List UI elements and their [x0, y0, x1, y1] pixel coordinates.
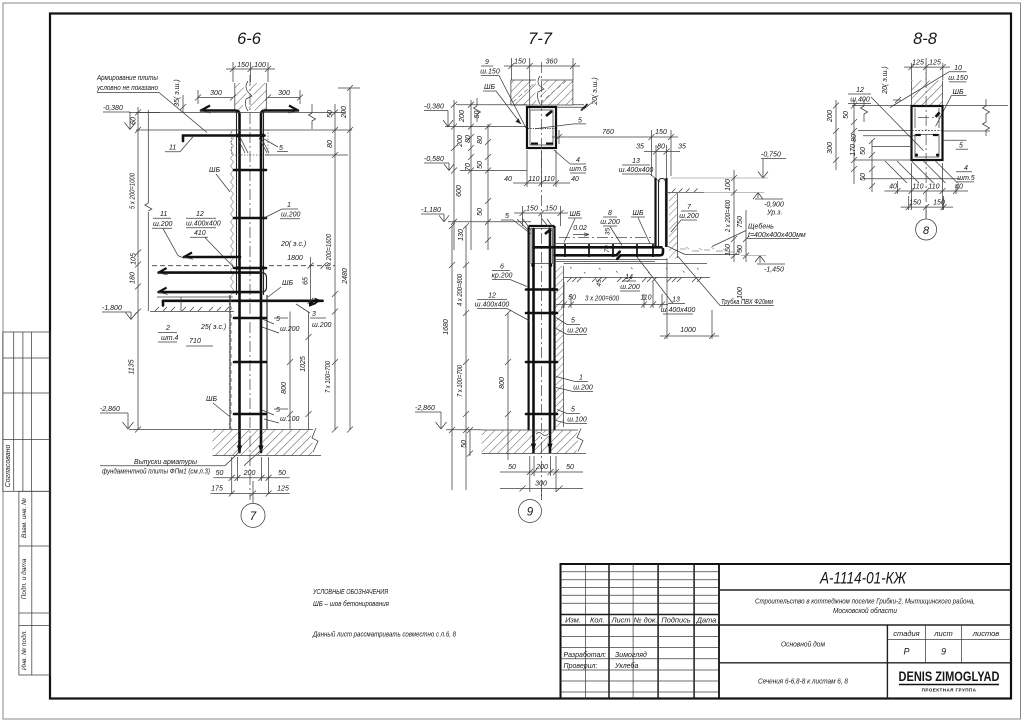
svg-text:-0,380: -0,380: [103, 105, 123, 112]
svg-text:ш.400х400: ш.400х400: [619, 167, 654, 174]
svg-text:40: 40: [504, 176, 512, 183]
centerline cross: [918, 117, 934, 119]
svg-text:2 х 200=400: 2 х 200=400: [725, 200, 732, 233]
svg-text:45: 45: [596, 279, 603, 287]
svg-text:1025: 1025: [300, 356, 307, 372]
svg-text:35: 35: [636, 144, 644, 151]
wall outline below slab: [236, 111, 238, 296]
slab bottom bar with bend: [555, 249, 664, 259]
svg-text:Подп. и дата: Подп. и дата: [20, 558, 28, 599]
corner hatch marks: [517, 218, 555, 231]
svg-text:t=400х400х400мм: t=400х400х400мм: [748, 232, 806, 239]
svg-text:150: 150: [237, 62, 249, 69]
svg-text:ш.200: ш.200: [573, 385, 593, 392]
leader to outlets: [100, 449, 262, 466]
svg-text:ш.400х400: ш.400х400: [475, 302, 510, 309]
svg-text:150: 150: [514, 59, 526, 66]
svg-text:ш.400х400: ш.400х400: [661, 307, 696, 314]
svg-text:130: 130: [458, 229, 465, 241]
left dim chains lower 7-7: [449, 223, 511, 490]
svg-text:Разработал:: Разработал:: [564, 651, 607, 659]
svg-text:Подпись: Подпись: [661, 616, 690, 625]
slab hatched cut top: [511, 80, 573, 105]
fletch arrow right: [289, 106, 298, 111]
svg-text:Ур.з.: Ур.з.: [766, 210, 782, 217]
svg-text:8-8: 8-8: [913, 30, 938, 48]
dim 50 foundation depth: [467, 427, 473, 457]
wall stirrups lower: [526, 288, 557, 291]
svg-text:12: 12: [196, 211, 204, 218]
svg-text:300: 300: [278, 90, 290, 97]
foundation right break zigzag: [312, 428, 318, 452]
dotted joint zone rect: [232, 130, 269, 155]
dim 300 left of wall: [195, 90, 236, 104]
svg-text:фундаментной плиты ФПм1 (см.л.: фундаментной плиты ФПм1 (см.л.3): [102, 468, 210, 476]
bold anchor diagonal (8-8): [936, 112, 940, 117]
beam 8-8 outline: [912, 106, 943, 160]
svg-text:стадия: стадия: [893, 629, 919, 638]
svg-text:5: 5: [571, 407, 575, 414]
centerline vertical 8-8: [925, 58, 927, 218]
bottom dim chain 50 200 50: [213, 457, 289, 494]
svg-text:35: 35: [678, 144, 686, 151]
svg-text:200: 200: [341, 106, 348, 119]
header texts Izm Kol List Ndok Podpis Data: [565, 616, 716, 625]
break zigzag on floor line: [474, 98, 481, 122]
svg-text:12: 12: [488, 293, 496, 300]
svg-text:360: 360: [546, 59, 558, 66]
svg-text:8 х 200=1600: 8 х 200=1600: [326, 234, 333, 270]
svg-text:3 х 200=600: 3 х 200=600: [585, 296, 619, 303]
wall 7-7 outline: [527, 226, 529, 430]
svg-text:0.02: 0.02: [573, 225, 587, 232]
lean concrete strip under slab: [564, 262, 708, 264]
bar hook right rounded: [259, 273, 267, 293]
wavy break in wall at foundation: [536, 433, 548, 436]
svg-text:Выпуски арматуры: Выпуски арматуры: [134, 459, 198, 466]
svg-text:25( э.с.): 25( э.с.): [200, 324, 226, 331]
svg-text:Согласовано: Согласовано: [5, 445, 12, 488]
node circle 9: [519, 500, 542, 523]
floor lines left and right: [852, 105, 912, 107]
svg-text:12: 12: [856, 87, 864, 94]
svg-text:ш.400х400: ш.400х400: [186, 221, 221, 228]
svg-text:кр.200: кр.200: [492, 273, 513, 280]
svg-text:5: 5: [959, 143, 963, 150]
svg-text:Основной дом: Основной дом: [781, 640, 826, 649]
svg-text:20( э.ш.): 20( э.ш.): [592, 77, 599, 106]
svg-text:2: 2: [165, 325, 170, 332]
svg-text:ШБ: ШБ: [206, 396, 217, 403]
svg-text:50: 50: [860, 147, 867, 155]
joint hatch in wall: [238, 137, 269, 153]
dotted joint line in beam: [528, 128, 555, 130]
right dim chain 2: [338, 85, 360, 433]
slab top bar: [534, 246, 662, 249]
dotted joint line: [912, 130, 942, 132]
svg-text:50: 50: [508, 464, 516, 471]
svg-text:ШБ: ШБ: [953, 89, 964, 96]
inner stirrup lower: [915, 135, 939, 158]
rebar outlet arrows to foundation bottom: [237, 446, 264, 454]
top bar 11 with hooks and section dots: [183, 134, 265, 137]
ground line left: [150, 311, 234, 313]
svg-text:110: 110: [528, 176, 539, 183]
svg-text:ШБ: ШБ: [633, 210, 644, 217]
svg-text:6-6: 6-6: [237, 30, 262, 48]
svg-text:5: 5: [279, 145, 283, 152]
svg-text:1680: 1680: [443, 319, 450, 335]
svg-text:11: 11: [169, 145, 176, 152]
svg-text:180: 180: [130, 272, 137, 284]
bottom dim chain 175 125: [211, 481, 290, 503]
svg-text:125: 125: [277, 486, 289, 493]
bent rebar left (slab-to-wall): [201, 111, 240, 453]
svg-text:80: 80: [465, 135, 472, 143]
slab stirrups: [565, 244, 653, 257]
svg-text:Армирование плиты: Армирование плиты: [96, 75, 159, 82]
svg-text:40: 40: [889, 184, 897, 191]
left strip rows table: [19, 491, 50, 675]
floor line (level -0.380): [136, 129, 352, 131]
svg-text:200: 200: [459, 110, 466, 123]
svg-text:710: 710: [189, 338, 201, 345]
label 5 (8-8): [943, 139, 967, 141]
stadia list listov sub-table: [887, 625, 1011, 663]
svg-text:ШБ – шов бетонирования: ШБ – шов бетонирования: [313, 599, 389, 608]
dim 40 110 110 40 below beam: [513, 150, 570, 187]
wall hatched cut above slab: [235, 83, 266, 111]
svg-text:-0,580: -0,580: [424, 156, 444, 163]
svg-text:7 х 100=700: 7 х 100=700: [325, 361, 332, 393]
svg-text:Данный лист рассматривать совм: Данный лист рассматривать совместно с л.…: [312, 630, 456, 639]
slab lines: [555, 243, 656, 245]
bottom bar with right arrows: [163, 299, 323, 302]
svg-text:300: 300: [210, 90, 222, 97]
svg-text:9: 9: [485, 59, 489, 66]
stirrup thick marks: [915, 134, 938, 136]
svg-text:800: 800: [499, 377, 506, 389]
svg-text:5: 5: [578, 118, 582, 125]
dim 300 right of wall: [265, 90, 303, 104]
svg-text:ш.200: ш.200: [153, 221, 173, 228]
svg-text:40: 40: [571, 176, 579, 183]
node circle 8: [916, 219, 937, 240]
svg-text:200: 200: [243, 470, 256, 477]
svg-text:ш.200: ш.200: [620, 284, 640, 291]
beam bottom joint dots: [531, 264, 535, 268]
break symbol right: [309, 104, 316, 129]
svg-text:-1,180: -1,180: [421, 207, 441, 214]
bottom stirrup marks: [531, 143, 553, 145]
svg-text:50: 50: [278, 470, 286, 477]
svg-text:100: 100: [254, 62, 266, 69]
svg-text:50: 50: [566, 464, 574, 471]
right column 7-7: [654, 178, 656, 247]
dim 150 360 above slab: [504, 58, 580, 128]
svg-text:14: 14: [625, 274, 633, 281]
svg-text:10: 10: [954, 65, 962, 72]
svg-text:9: 9: [941, 647, 946, 657]
svg-text:125: 125: [929, 60, 941, 67]
svg-text:800: 800: [281, 382, 288, 394]
svg-text:150: 150: [933, 200, 945, 207]
svg-text:70: 70: [465, 163, 472, 171]
svg-text:Московской области: Московской области: [833, 606, 898, 615]
inner verticals upper: [914, 108, 916, 128]
stirrups: [234, 169, 266, 172]
hatched slab above beam: [912, 81, 943, 106]
svg-text:200: 200: [457, 135, 464, 148]
svg-text:5: 5: [276, 316, 280, 323]
title block outer: [561, 564, 1012, 699]
svg-text:105: 105: [131, 253, 138, 265]
trench gravel outline: [667, 246, 739, 255]
svg-text:80: 80: [477, 136, 484, 144]
dim 125 125: [904, 63, 950, 80]
svg-text:шт.4: шт.4: [161, 335, 179, 342]
foundation wall zigzag: [229, 300, 232, 429]
svg-text:-0,380: -0,380: [424, 104, 444, 111]
svg-text:Щебень: Щебень: [748, 223, 774, 231]
dim 150/100 above wall: [226, 62, 275, 82]
svg-text:ш.200: ш.200: [567, 328, 587, 335]
foundation slab hatched: [213, 430, 313, 456]
svg-text:200: 200: [827, 110, 834, 123]
svg-text:ШБ: ШБ: [484, 84, 495, 91]
svg-text:ш.100: ш.100: [567, 417, 587, 424]
svg-text:35( э.ш.): 35( э.ш.): [174, 79, 181, 107]
extension lines left of beam: [854, 130, 960, 178]
svg-text:Лист: Лист: [610, 616, 630, 625]
svg-text:Уклеба: Уклеба: [614, 662, 638, 670]
svg-text:Трубка ПВХ Ф20мм: Трубка ПВХ Ф20мм: [721, 298, 773, 306]
svg-text:50: 50: [737, 245, 744, 253]
left dim chains (8-8): [833, 100, 875, 192]
node hatch below beam: [885, 161, 958, 183]
svg-text:3: 3: [312, 311, 316, 318]
svg-text:УСЛОВНЫЕ ОБОЗНАЧЕНИЯ: УСЛОВНЫЕ ОБОЗНАЧЕНИЯ: [312, 587, 388, 596]
break zigzag right: [983, 99, 990, 136]
svg-text:170: 170: [850, 144, 857, 156]
svg-text:35: 35: [605, 228, 612, 236]
svg-text:200: 200: [535, 464, 548, 471]
svg-text:150: 150: [909, 200, 921, 207]
svg-text:Проверил:: Проверил:: [564, 663, 598, 670]
foundation slab 7-7: [482, 430, 578, 454]
svg-text:Инв. № подл.: Инв. № подл.: [20, 630, 28, 671]
svg-text:150: 150: [526, 206, 538, 213]
svg-text:600: 600: [456, 185, 463, 197]
vertical break squiggle in slab: [537, 76, 544, 104]
svg-text:150: 150: [725, 244, 732, 256]
dim 760 150: [552, 130, 678, 176]
svg-text:50: 50: [860, 173, 867, 181]
left dim chain verticals: [129, 107, 212, 433]
svg-text:110: 110: [543, 176, 554, 183]
bottom dim row1 40 110 110 40: [884, 163, 968, 210]
svg-text:ш.150: ш.150: [948, 75, 968, 82]
svg-text:40: 40: [955, 184, 963, 191]
svg-text:5 х 200=1000: 5 х 200=1000: [130, 173, 137, 209]
level -0,900 Ur.z.: [678, 193, 783, 200]
svg-text:20( э.с.): 20( э.с.): [280, 241, 306, 248]
svg-text:750: 750: [737, 216, 744, 228]
svg-text:ш.200: ш.200: [679, 213, 699, 220]
svg-text:7: 7: [250, 511, 257, 523]
svg-text:ш.400: ш.400: [850, 97, 870, 104]
inner chains 800 1025: [287, 312, 312, 430]
svg-text:50: 50: [477, 208, 484, 216]
svg-text:-0,900: -0,900: [764, 202, 784, 209]
bar 11 at basement ceiling: [184, 256, 240, 259]
svg-text:8: 8: [608, 210, 612, 217]
svg-text:4: 4: [576, 157, 580, 164]
svg-text:300: 300: [827, 142, 834, 154]
svg-text:ш.200: ш.200: [281, 212, 301, 219]
basement slab bars: [159, 271, 259, 274]
svg-text:13: 13: [632, 158, 640, 165]
rebar arrows 7-7: [531, 444, 553, 452]
shov betonirovaniya zigzag left edge: [231, 130, 234, 295]
svg-text:13: 13: [672, 297, 680, 304]
svg-text:-1,800: -1,800: [102, 305, 122, 312]
svg-text:50: 50: [327, 110, 334, 118]
ground line right of column: [667, 192, 705, 194]
svg-text:лист: лист: [933, 629, 952, 638]
svg-text:Строительство в коттеджном пос: Строительство в коттеджном поселке Грибк…: [755, 597, 975, 606]
svg-text:А-1114-01-КЖ: А-1114-01-КЖ: [819, 569, 907, 588]
svg-text:4 х 200=800: 4 х 200=800: [457, 274, 464, 306]
svg-text:-2,860: -2,860: [415, 405, 435, 412]
axis dash line: [559, 237, 655, 239]
svg-text:ШБ: ШБ: [570, 211, 581, 218]
svg-text:6: 6: [500, 264, 504, 271]
svg-text:шт.5: шт.5: [957, 175, 975, 182]
svg-text:125: 125: [912, 60, 924, 67]
svg-text:шт.5: шт.5: [569, 166, 587, 173]
foundation wall outline: [229, 295, 231, 429]
svg-text:Дата: Дата: [696, 616, 717, 625]
svg-text:1: 1: [579, 375, 583, 382]
svg-text:50: 50: [843, 111, 850, 119]
rebar hook top: [659, 179, 666, 248]
svg-text:ПРОЕКТНАЯ ГРУППА: ПРОЕКТНАЯ ГРУППА: [922, 688, 977, 693]
svg-text:№ док.: № док.: [634, 616, 658, 625]
svg-text:150: 150: [655, 129, 667, 136]
left floor lines: [456, 104, 527, 106]
svg-text:DENIS ZIMOGLYAD: DENIS ZIMOGLYAD: [899, 668, 1000, 684]
svg-text:80: 80: [327, 140, 334, 148]
svg-text:50: 50: [477, 161, 484, 169]
dim 150 150 above wall: [514, 206, 568, 226]
svg-text:листов: листов: [972, 629, 999, 638]
svg-text:50: 50: [461, 440, 468, 448]
svg-text:1800: 1800: [287, 255, 303, 262]
fletch arrow left: [201, 106, 210, 111]
svg-text:Изм.: Изм.: [565, 616, 581, 625]
centerline wall 7-7: [541, 62, 543, 500]
svg-text:5: 5: [276, 407, 280, 414]
svg-text:5: 5: [571, 318, 575, 325]
trench wall hatched: [669, 193, 678, 259]
svg-text:Р: Р: [903, 647, 909, 657]
svg-text:ШБ: ШБ: [282, 280, 293, 287]
title block left table rows: [561, 572, 720, 692]
centerline wall 6-6: [249, 75, 251, 500]
wall rebars: [532, 229, 535, 452]
svg-text:-0,750: -0,750: [761, 152, 781, 159]
svg-text:410: 410: [194, 230, 206, 237]
svg-text:2480: 2480: [342, 268, 349, 285]
svg-text:300: 300: [535, 481, 547, 488]
svg-text:110: 110: [912, 184, 923, 191]
bottom dim row2 150 150: [901, 196, 954, 219]
svg-text:-1,450: -1,450: [764, 267, 784, 274]
left dim chains 7-7: [451, 100, 491, 250]
bold anchor diagonal top right: [546, 111, 552, 116]
svg-text:ш.150: ш.150: [480, 69, 500, 76]
svg-text:50: 50: [568, 295, 576, 302]
wall inner stirrup: [531, 229, 553, 264]
svg-text:ШБ: ШБ: [209, 167, 220, 174]
svg-text:1135: 1135: [129, 359, 136, 374]
basement floor line: [157, 296, 233, 298]
right dim chains: [731, 170, 749, 262]
svg-text:65: 65: [303, 277, 310, 285]
node circle 7: [241, 503, 265, 527]
svg-text:100: 100: [737, 287, 744, 299]
vertical break squiggle in wall cut: [245, 81, 252, 111]
break zigzag left: [861, 99, 868, 122]
svg-text:Зимогляд: Зимогляд: [615, 651, 647, 659]
svg-text:1: 1: [287, 202, 291, 209]
level -1,450: [741, 256, 785, 264]
svg-text:50: 50: [216, 470, 224, 477]
svg-text:110: 110: [640, 295, 651, 302]
svg-text:1000: 1000: [680, 327, 696, 334]
svg-text:100: 100: [725, 179, 732, 191]
svg-text:20( э.ш.): 20( э.ш.): [882, 66, 889, 95]
svg-text:5: 5: [505, 213, 509, 220]
svg-text:60: 60: [131, 117, 138, 125]
left strip table Soglasovano: [3, 332, 50, 491]
bottom dims 7-7: [500, 456, 583, 492]
title block left table verticals: [586, 564, 634, 699]
right dim chain 1: [265, 104, 348, 433]
dim 35 80 35: [644, 145, 680, 178]
svg-text:175: 175: [211, 486, 223, 493]
bent rebar right: [261, 111, 298, 453]
svg-text:80: 80: [851, 134, 858, 142]
svg-text:70: 70: [604, 245, 611, 253]
svg-text:ш.200: ш.200: [600, 219, 620, 226]
svg-text:условно не показано: условно не показано: [96, 85, 158, 92]
bold anchor diagonal: [545, 229, 551, 234]
svg-text:80: 80: [657, 144, 665, 151]
svg-text:-2,860: -2,860: [100, 406, 120, 413]
beam outline 7-7 top: [527, 107, 556, 148]
svg-text:Взам. инв. №: Взам. инв. №: [21, 498, 28, 538]
svg-text:11: 11: [160, 211, 167, 218]
ground line left of foundation: [446, 429, 482, 431]
leader from note: [97, 93, 207, 133]
svg-text:ш.200: ш.200: [312, 322, 332, 329]
svg-text:4: 4: [964, 165, 968, 172]
svg-text:8: 8: [923, 225, 930, 237]
backfill hatch right of wall: [555, 266, 564, 427]
extension line with break: [147, 110, 149, 203]
